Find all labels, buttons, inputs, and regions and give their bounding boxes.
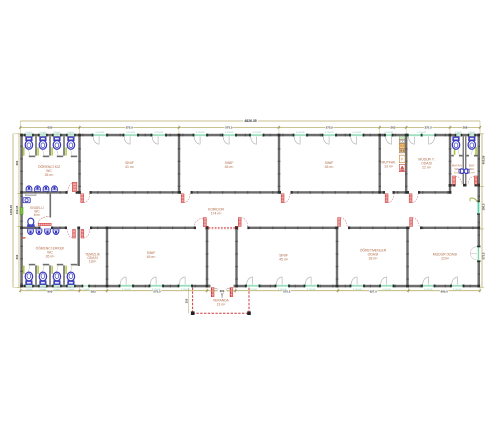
svg-text:5 m²: 5 m² (454, 171, 460, 175)
svg-text:375.5: 375.5 (424, 126, 432, 130)
veranda post right (247, 311, 251, 315)
red mark boys WC (22, 237, 26, 238)
toilet boys WC 4 (68, 281, 75, 285)
entrance wall stub left (208, 285, 210, 288)
svg-text:600.5: 600.5 (441, 290, 449, 294)
top exterior wall (20, 134, 92, 137)
svg-text:K 60x45: K 60x45 (26, 132, 33, 134)
vent window girls WC stall 2 (39, 134, 47, 136)
corridor bottom wall (23, 227, 41, 229)
wall teachers room / director room (406, 229, 408, 285)
girls WC stall door 2 (37, 147, 38, 155)
boys WC stall partition 1 (35, 265, 37, 284)
svg-text:600: 600 (15, 160, 19, 165)
svg-text:K 175x135: K 175x135 (325, 132, 334, 134)
disabled WC washbasin (23, 198, 30, 203)
svg-text:F: F (401, 158, 403, 162)
svg-text:K 175x135: K 175x135 (225, 132, 234, 134)
wall classroom 3 / kitchen (379, 136, 381, 191)
window bottom 9 (422, 285, 435, 287)
svg-text:K 175x135: K 175x135 (278, 289, 287, 291)
toilet girls WC 2 (40, 137, 47, 141)
svg-text:K 175x135: K 175x135 (353, 289, 362, 291)
sink girls WC 1 (26, 189, 32, 191)
svg-text:K 175x135: K 175x135 (253, 132, 262, 134)
door head office (409, 194, 412, 203)
veranda left dim (188, 288, 190, 314)
svg-text:575.5: 575.5 (326, 126, 334, 130)
svg-text:45 m²: 45 m² (325, 165, 335, 169)
svg-text:180.5: 180.5 (482, 203, 486, 210)
svg-text:45 m²: 45 m² (225, 165, 235, 169)
svg-text:K 175x135: K 175x135 (96, 132, 105, 134)
toilet boys WC 2 (40, 281, 47, 285)
svg-text:1302.35: 1302.35 (9, 205, 13, 216)
wall classroom 2 / classroom 3 (278, 136, 280, 191)
sink girls WC 2 (35, 189, 41, 191)
vent window girls WC stall 1 (25, 134, 33, 136)
girls WC stall door 4 (65, 147, 66, 155)
svg-text:174 m²: 174 m² (211, 211, 223, 215)
boys WC stall partition 3 (63, 265, 65, 284)
toilet BAYAN WC (453, 137, 460, 141)
sink girls WC 4 (52, 189, 58, 191)
vestibule right wall (235, 229, 237, 285)
svg-text:K 60x45: K 60x45 (54, 289, 61, 291)
boys WC stall fronts (29, 264, 35, 266)
svg-text:13 m²: 13 m² (217, 302, 226, 306)
door kitchen (385, 194, 388, 203)
window top 10 (385, 134, 393, 136)
toilet boys WC 1 (26, 281, 33, 285)
svg-text:627.5: 627.5 (370, 290, 378, 294)
svg-text:K 175x135: K 175x135 (353, 132, 362, 134)
girls WC stall partition 2 (49, 136, 51, 155)
toilet girls WC 4 (68, 137, 75, 141)
svg-text:250: 250 (185, 298, 189, 303)
wall boys WC right (78, 229, 80, 266)
BAY WC stall door (475, 147, 477, 155)
svg-text:102.35: 102.35 (15, 205, 19, 214)
svg-text:K 175x135: K 175x135 (453, 289, 462, 291)
window top 4 (194, 134, 208, 136)
BAY WC stall wall (466, 155, 469, 157)
window cleaning room (83, 285, 90, 287)
door classroom 3 (281, 194, 284, 203)
door classroom bottom-right (238, 218, 241, 227)
svg-text:K 60x45: K 60x45 (40, 289, 47, 291)
left exterior wall (20, 134, 23, 287)
window top 7 (294, 134, 308, 136)
kitchen stove (399, 164, 405, 171)
svg-text:26 m²: 26 m² (46, 254, 56, 258)
svg-text:K 175x135: K 175x135 (127, 132, 136, 134)
svg-text:263: 263 (390, 126, 395, 130)
BAYAN WC stall wall (451, 155, 454, 157)
toilet BAY WC (469, 137, 476, 141)
door BAY WC (474, 176, 477, 184)
window bottom 3 (179, 285, 193, 287)
WC block bottom wall (449, 184, 456, 186)
svg-text:K 175x135: K 175x135 (122, 289, 131, 291)
door disabled WC (38, 223, 51, 225)
window bottom 7 (351, 285, 365, 287)
vestibule left wall (206, 229, 208, 285)
girls WC stall door 1 (23, 147, 24, 155)
svg-text:600: 600 (15, 254, 19, 259)
toilet girls WC 1 (26, 137, 33, 141)
double sink BAYAN/BAY (459, 169, 464, 174)
girls WC stall fronts (29, 156, 35, 158)
svg-text:K 60x45: K 60x45 (68, 289, 75, 291)
girls WC stall partition 3 (63, 136, 65, 155)
svg-text:8 m²: 8 m² (34, 213, 40, 217)
door cleaning room (81, 229, 84, 238)
svg-text:K 175x135: K 175x135 (249, 289, 258, 291)
dimension line bottom (20, 290, 480, 292)
svg-text:260: 260 (220, 289, 225, 293)
veranda post left (191, 311, 195, 315)
dimension line right (481, 134, 483, 287)
sink boys WC 3 (45, 229, 51, 231)
right exterior wall (478, 134, 481, 202)
sink girls WC 3 (43, 189, 49, 191)
dimension line left (12, 134, 14, 287)
sink boys WC 2 (36, 229, 42, 231)
window top 8 (323, 134, 337, 136)
sink boys WC 1 (28, 229, 34, 231)
window top 1 (93, 134, 108, 136)
wall junction blocks (20, 134, 23, 137)
dimension line overall width top (20, 120, 480, 122)
window bottom 4 (246, 285, 260, 287)
door boys WC (73, 229, 76, 238)
window bottom 8 (380, 285, 394, 287)
svg-text:575.5: 575.5 (225, 126, 233, 130)
svg-text:45 m²: 45 m² (279, 257, 289, 261)
door girls WC (72, 182, 77, 191)
svg-text:41 m²: 41 m² (125, 165, 135, 169)
wall classroom 1 / classroom 2 (178, 136, 180, 191)
toilet boys WC 3 (54, 281, 61, 285)
svg-text:12m²: 12m² (89, 260, 97, 264)
BAYAN WC stall door (454, 147, 456, 155)
window bottom 1 (120, 285, 134, 287)
svg-text:268: 268 (463, 126, 468, 130)
vestibule jamb right (235, 226, 238, 229)
door classroom bottom-left (203, 218, 206, 227)
boys WC stall door 4 (65, 266, 66, 274)
svg-text:K 175x135: K 175x135 (417, 132, 426, 134)
window bottom 10 (451, 285, 464, 287)
kitchen counter (399, 136, 405, 139)
toilet girls WC 3 (54, 137, 61, 141)
wall between BAYAN and BAY WC (463, 136, 464, 184)
vestibule threshold dashed (209, 226, 236, 228)
door classroom 2 (181, 194, 184, 203)
veranda dashed outline (192, 288, 194, 314)
boys WC stall door 2 (37, 266, 38, 274)
vestibule jamb left (206, 226, 209, 229)
svg-text:K 60x45: K 60x45 (468, 132, 475, 134)
vent window boys WC stall 2 (39, 285, 47, 287)
sink boys WC 4 (53, 229, 59, 231)
wall head office / WC block (449, 136, 451, 193)
svg-text:K 60x45: K 60x45 (455, 132, 462, 134)
dimension line top segments (20, 126, 480, 128)
svg-text:13 m²: 13 m² (384, 164, 394, 168)
wall cleaning room right (106, 229, 108, 285)
svg-text:K 175x135: K 175x135 (385, 132, 394, 134)
window top 3 (152, 134, 167, 136)
svg-text:26 m²: 26 m² (45, 173, 55, 177)
svg-text:K 175x135: K 175x135 (383, 289, 392, 291)
girls WC stall partition 1 (35, 136, 37, 155)
disabled WC right wall (50, 194, 52, 218)
door teachers room (338, 218, 341, 227)
svg-text:22m²: 22m² (441, 256, 450, 260)
vent window BAYAN WC (456, 134, 462, 136)
window bottom 2 (150, 285, 164, 287)
door classroom 1 (81, 194, 84, 203)
svg-text:K 60x45: K 60x45 (54, 132, 61, 134)
svg-text:4826.35: 4826.35 (244, 119, 256, 123)
window top 2 (124, 134, 139, 136)
window bottom 5 (276, 285, 290, 287)
svg-text:K 175x135: K 175x135 (307, 289, 316, 291)
svg-text:K 60x60: K 60x60 (83, 289, 90, 291)
svg-text:K 60x45: K 60x45 (26, 289, 33, 291)
svg-text:575.5: 575.5 (126, 126, 134, 130)
svg-text:K 60x45: K 60x45 (40, 132, 47, 134)
entrance dim (211, 290, 234, 292)
door BAYAN WC (453, 176, 456, 184)
boys WC stall door 3 (51, 266, 52, 274)
window top 5 (223, 134, 237, 136)
window left wall (20, 208, 23, 215)
window top 9 (350, 134, 364, 136)
door jamb caps (65, 191, 67, 194)
svg-text:K 175x135: K 175x135 (424, 289, 433, 291)
disabled WC toilet (28, 218, 34, 225)
boys WC stall partition 2 (49, 265, 51, 284)
boys WC stall door 1 (23, 266, 24, 274)
corridor top wall (23, 191, 68, 193)
girls WC stall door 3 (51, 147, 52, 155)
svg-text:K 175x135: K 175x135 (181, 289, 190, 291)
vent window girls WC stall 4 (67, 134, 75, 136)
entrance double doors (211, 288, 214, 297)
wall WC girls / classroom 1 (78, 136, 80, 191)
wall kitchen / head office (405, 136, 407, 191)
svg-text:K 175x135: K 175x135 (155, 132, 164, 134)
svg-text:575.5: 575.5 (482, 252, 486, 259)
svg-text:K 175x135: K 175x135 (152, 289, 161, 291)
svg-text:33 m²: 33 m² (369, 256, 379, 260)
svg-text:600: 600 (47, 290, 52, 294)
kitchen cabinet (399, 155, 405, 163)
svg-text:K 175x135: K 175x135 (196, 132, 205, 134)
wall classroom / teachers room (336, 229, 338, 285)
svg-text:K 60x45: K 60x45 (68, 132, 75, 134)
vent window BAY WC (469, 134, 476, 136)
exit door right wall (477, 202, 479, 214)
window right wall (477, 247, 479, 261)
svg-text:5 m²: 5 m² (469, 171, 475, 175)
window bottom 6 (305, 285, 319, 287)
vent window girls WC stall 3 (53, 134, 61, 136)
disabled WC counter (26, 193, 37, 195)
svg-text:450.26: 450.26 (482, 155, 486, 164)
svg-text:K 175x135: K 175x135 (296, 132, 305, 134)
svg-text:45 m²: 45 m² (147, 255, 157, 259)
window top 11 (408, 134, 436, 136)
svg-text:283: 283 (91, 290, 96, 294)
door director room (410, 218, 413, 227)
entrance wall stub right (234, 285, 236, 288)
vent window boys WC stall 3 (53, 285, 61, 287)
bottom exterior wall (20, 285, 82, 288)
vent window boys WC stall 1 (25, 285, 33, 287)
svg-text:22 m²: 22 m² (422, 165, 432, 169)
vent window boys WC stall 4 (67, 285, 75, 287)
window top 6 (250, 134, 264, 136)
svg-text:600: 600 (47, 126, 52, 130)
